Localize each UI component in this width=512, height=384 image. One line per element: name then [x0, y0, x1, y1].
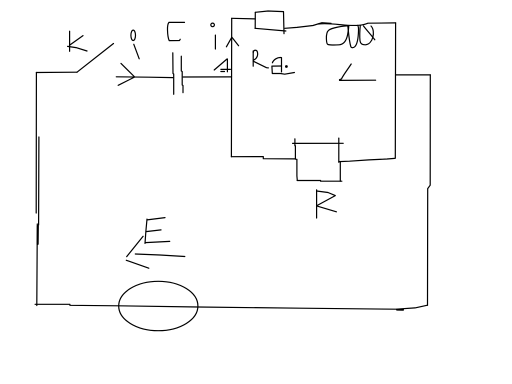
label q [131, 30, 139, 59]
wire: right branch [396, 74, 431, 76]
label L [340, 64, 376, 80]
wire: node to R2 [232, 17, 256, 20]
wire: inner loop bottom [231, 157, 295, 159]
EMF direction arrow [126, 236, 185, 268]
wire: top-left horizontal [36, 71, 77, 73]
wire: node vertical branch [230, 18, 232, 156]
capacitor C plates [173, 53, 183, 95]
wire: inner right vertical [394, 23, 396, 158]
resistor R2 box [255, 11, 286, 34]
wire: capacitor to node [183, 76, 231, 78]
polarity mark 4 [214, 59, 230, 72]
inductor L coil [318, 23, 396, 48]
current arrow i arrowhead [226, 37, 238, 47]
label i [211, 23, 216, 49]
label R2 [253, 50, 294, 74]
resistor R box [293, 138, 344, 181]
wire: outer right vertical [428, 75, 431, 305]
label E [145, 218, 170, 244]
wire: outer left vertical [36, 73, 39, 306]
wire: bottom horizontal [35, 304, 427, 310]
label C [167, 22, 184, 40]
wire: R2 to coil [285, 23, 331, 29]
label R [317, 190, 337, 218]
label K [68, 31, 87, 51]
wire: switch to capacitor with current arrow [116, 63, 173, 85]
switch K blade [77, 44, 114, 73]
source E ellipse [119, 281, 198, 330]
wire: R to right vertical [339, 158, 395, 161]
